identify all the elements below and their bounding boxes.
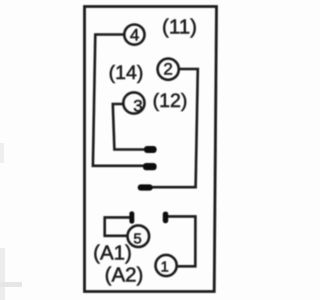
svg-text:3: 3 <box>133 97 142 116</box>
svg-text:(11): (11) <box>162 15 197 38</box>
terminal 3 <box>123 92 144 113</box>
relay case outline <box>85 7 217 292</box>
scan smudge left edge <box>0 248 5 300</box>
svg-text:(12): (12) <box>153 90 188 112</box>
contact bar 1 (NO contact) <box>144 146 157 153</box>
terminal 5 <box>128 225 150 247</box>
scan smudge bottom left <box>0 282 22 287</box>
contact bar 2 (common contact) <box>143 163 157 170</box>
terminal 1 <box>156 255 177 276</box>
wire coil-pin A2 loop to terminal1 <box>168 216 196 266</box>
wire terminal4 to contact bar2 <box>93 35 144 166</box>
svg-text:(A2): (A2) <box>105 263 144 286</box>
terminal 4 <box>124 24 144 44</box>
svg-text:1: 1 <box>161 258 169 275</box>
svg-text:2: 2 <box>163 60 172 79</box>
svg-text:4: 4 <box>130 26 139 45</box>
contact bar 3 (NC contact) <box>138 184 153 190</box>
wire terminal3 to contact bar1 <box>113 104 145 150</box>
wire coil-pin A1 loop to terminal5 <box>105 217 131 235</box>
wire terminal2 to contact bar3 <box>153 69 198 187</box>
svg-text:(A1): (A1) <box>93 241 132 264</box>
terminal 2 <box>158 59 179 80</box>
svg-text:5: 5 <box>133 231 141 248</box>
svg-text:(14): (14) <box>109 62 144 84</box>
coil pin A2 <box>163 212 168 224</box>
scan smudge left mid <box>0 143 4 163</box>
coil pin A1 <box>129 211 134 223</box>
